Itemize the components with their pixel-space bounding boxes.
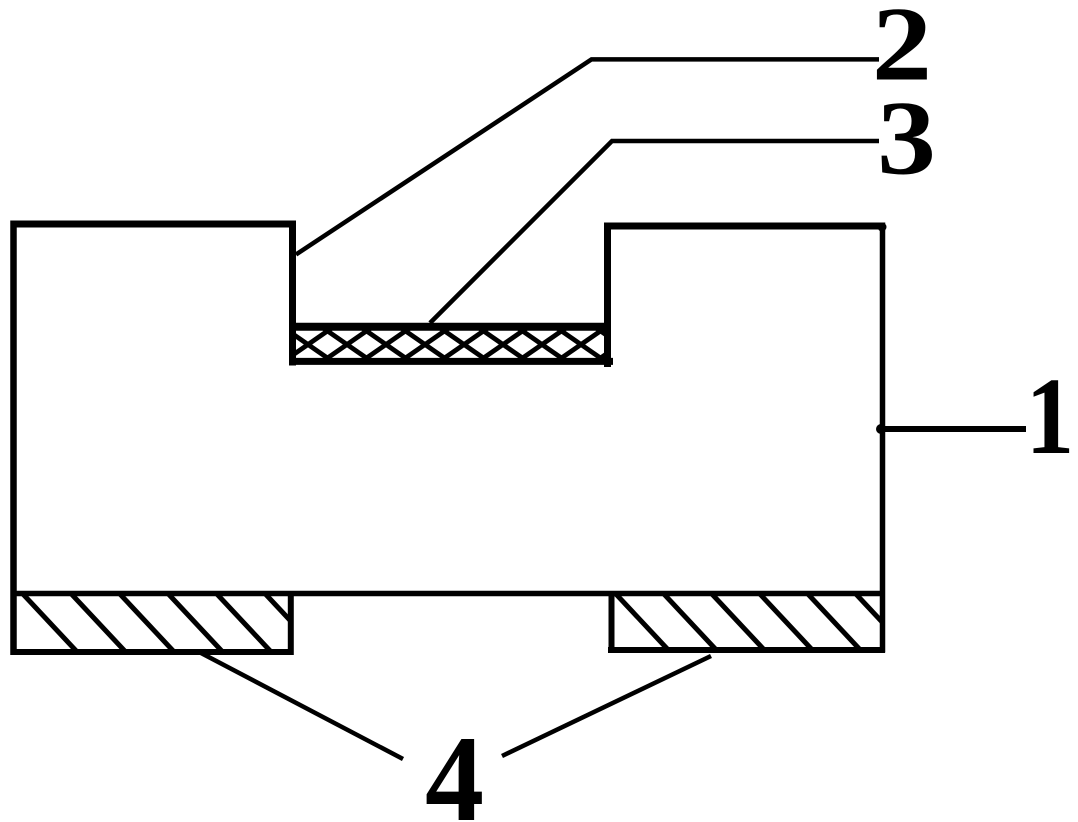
electrode pad 4 left: bottom border: [12, 649, 294, 655]
leader 1 junction dot: [876, 424, 886, 434]
electrode pad 4 left: right border: [288, 596, 294, 655]
leader line for label 4 from left pad: [201, 653, 403, 759]
body 1 bottom edge: [11, 591, 885, 597]
groove 2 left wall: [289, 221, 296, 366]
electrode pad 4 right: left border: [609, 596, 615, 653]
leader line for label 3: [430, 141, 879, 323]
svg-text:4: 4: [425, 712, 484, 822]
groove 2 right wall: [604, 223, 611, 368]
layer 3 crosshatch fill: [294, 330, 607, 359]
layer 3 bottom border: [289, 358, 613, 365]
leader line for label 1: [881, 426, 1026, 432]
body 1 right edge: [880, 223, 886, 653]
electrode pad 4 left: hatch lines: [22, 593, 323, 655]
body 1 left edge: [10, 221, 17, 656]
svg-text:3: 3: [877, 80, 936, 197]
svg-text:1: 1: [1026, 356, 1074, 477]
body 1 top-left edge: [11, 221, 296, 228]
electrode pad 4 right: bottom border: [608, 647, 885, 653]
electrode pad 4 right: hatch lines: [615, 593, 913, 655]
layer 3 top border: [291, 323, 611, 331]
body 1 top-right edge: [604, 223, 885, 230]
body 1 top-right corner dot: [878, 223, 887, 232]
leader line for label 4 from right pad: [502, 656, 711, 756]
leader line for label 2: [296, 59, 879, 254]
